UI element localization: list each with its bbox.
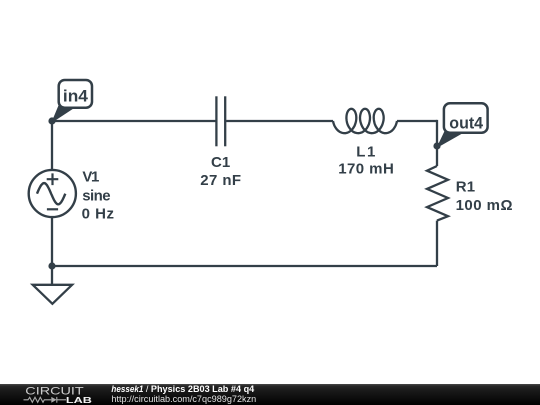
svg-text:0 Hz: 0 Hz <box>82 206 114 223</box>
wire: top horizontal, node to capacitor <box>52 120 216 122</box>
logo resistor zigzag and diode <box>24 397 67 403</box>
svg-text:27 nF: 27 nF <box>200 172 241 189</box>
svg-text:http://circuitlab.com/c7qc989g: http://circuitlab.com/c7qc989g72kzn <box>111 394 256 404</box>
wire: capacitor to inductor <box>226 120 333 122</box>
footer bar <box>0 384 540 405</box>
wire: inductor to top-right corner <box>397 120 437 122</box>
svg-text:in4: in4 <box>63 86 89 105</box>
svg-text:L1: L1 <box>356 144 375 161</box>
V1 sine wave <box>37 183 65 204</box>
svg-text:sine: sine <box>82 188 110 205</box>
svg-text:LAB: LAB <box>66 396 92 405</box>
svg-text:R1: R1 <box>456 179 475 196</box>
flag out4 box <box>444 103 488 133</box>
flag in4 box <box>59 80 92 108</box>
wire: resistor bottom to bottom-right corner <box>436 221 438 266</box>
svg-text:hessek1 / Physics 2B03 Lab #4: hessek1 / Physics 2B03 Lab #4 q4 <box>111 384 254 394</box>
voltage source V1 circle <box>29 170 76 217</box>
wire: right vertical from corner through out4 node to resistor <box>436 121 437 166</box>
resistor R1 zigzag <box>427 166 448 221</box>
flag out4 tail wedge <box>437 129 464 147</box>
V1 plus sign <box>47 173 59 185</box>
svg-text:V1: V1 <box>82 168 99 185</box>
node dot in4 <box>48 117 55 124</box>
svg-text:170 mH: 170 mH <box>338 161 394 178</box>
wire: top-left vertical from in4 node to V1 top <box>51 121 53 170</box>
capacitor C1 left plate <box>215 96 217 146</box>
flag in4 tail wedge <box>52 103 75 122</box>
svg-text:C1: C1 <box>211 154 230 171</box>
svg-text:100 mΩ: 100 mΩ <box>456 197 513 214</box>
inductor L1 coil <box>333 109 397 133</box>
wire: bottom horizontal <box>52 265 437 267</box>
ground symbol triangle <box>33 285 72 304</box>
V1 minus sign <box>47 208 58 210</box>
wire: ground node to ground symbol stem <box>51 266 53 285</box>
capacitor C1 right plate <box>224 96 226 146</box>
logo diode triangle <box>51 397 56 403</box>
node dot out4 <box>433 142 440 149</box>
svg-text:out4: out4 <box>449 114 483 133</box>
node dot ground <box>48 262 55 269</box>
wire: V1 bottom to ground node <box>51 217 53 266</box>
